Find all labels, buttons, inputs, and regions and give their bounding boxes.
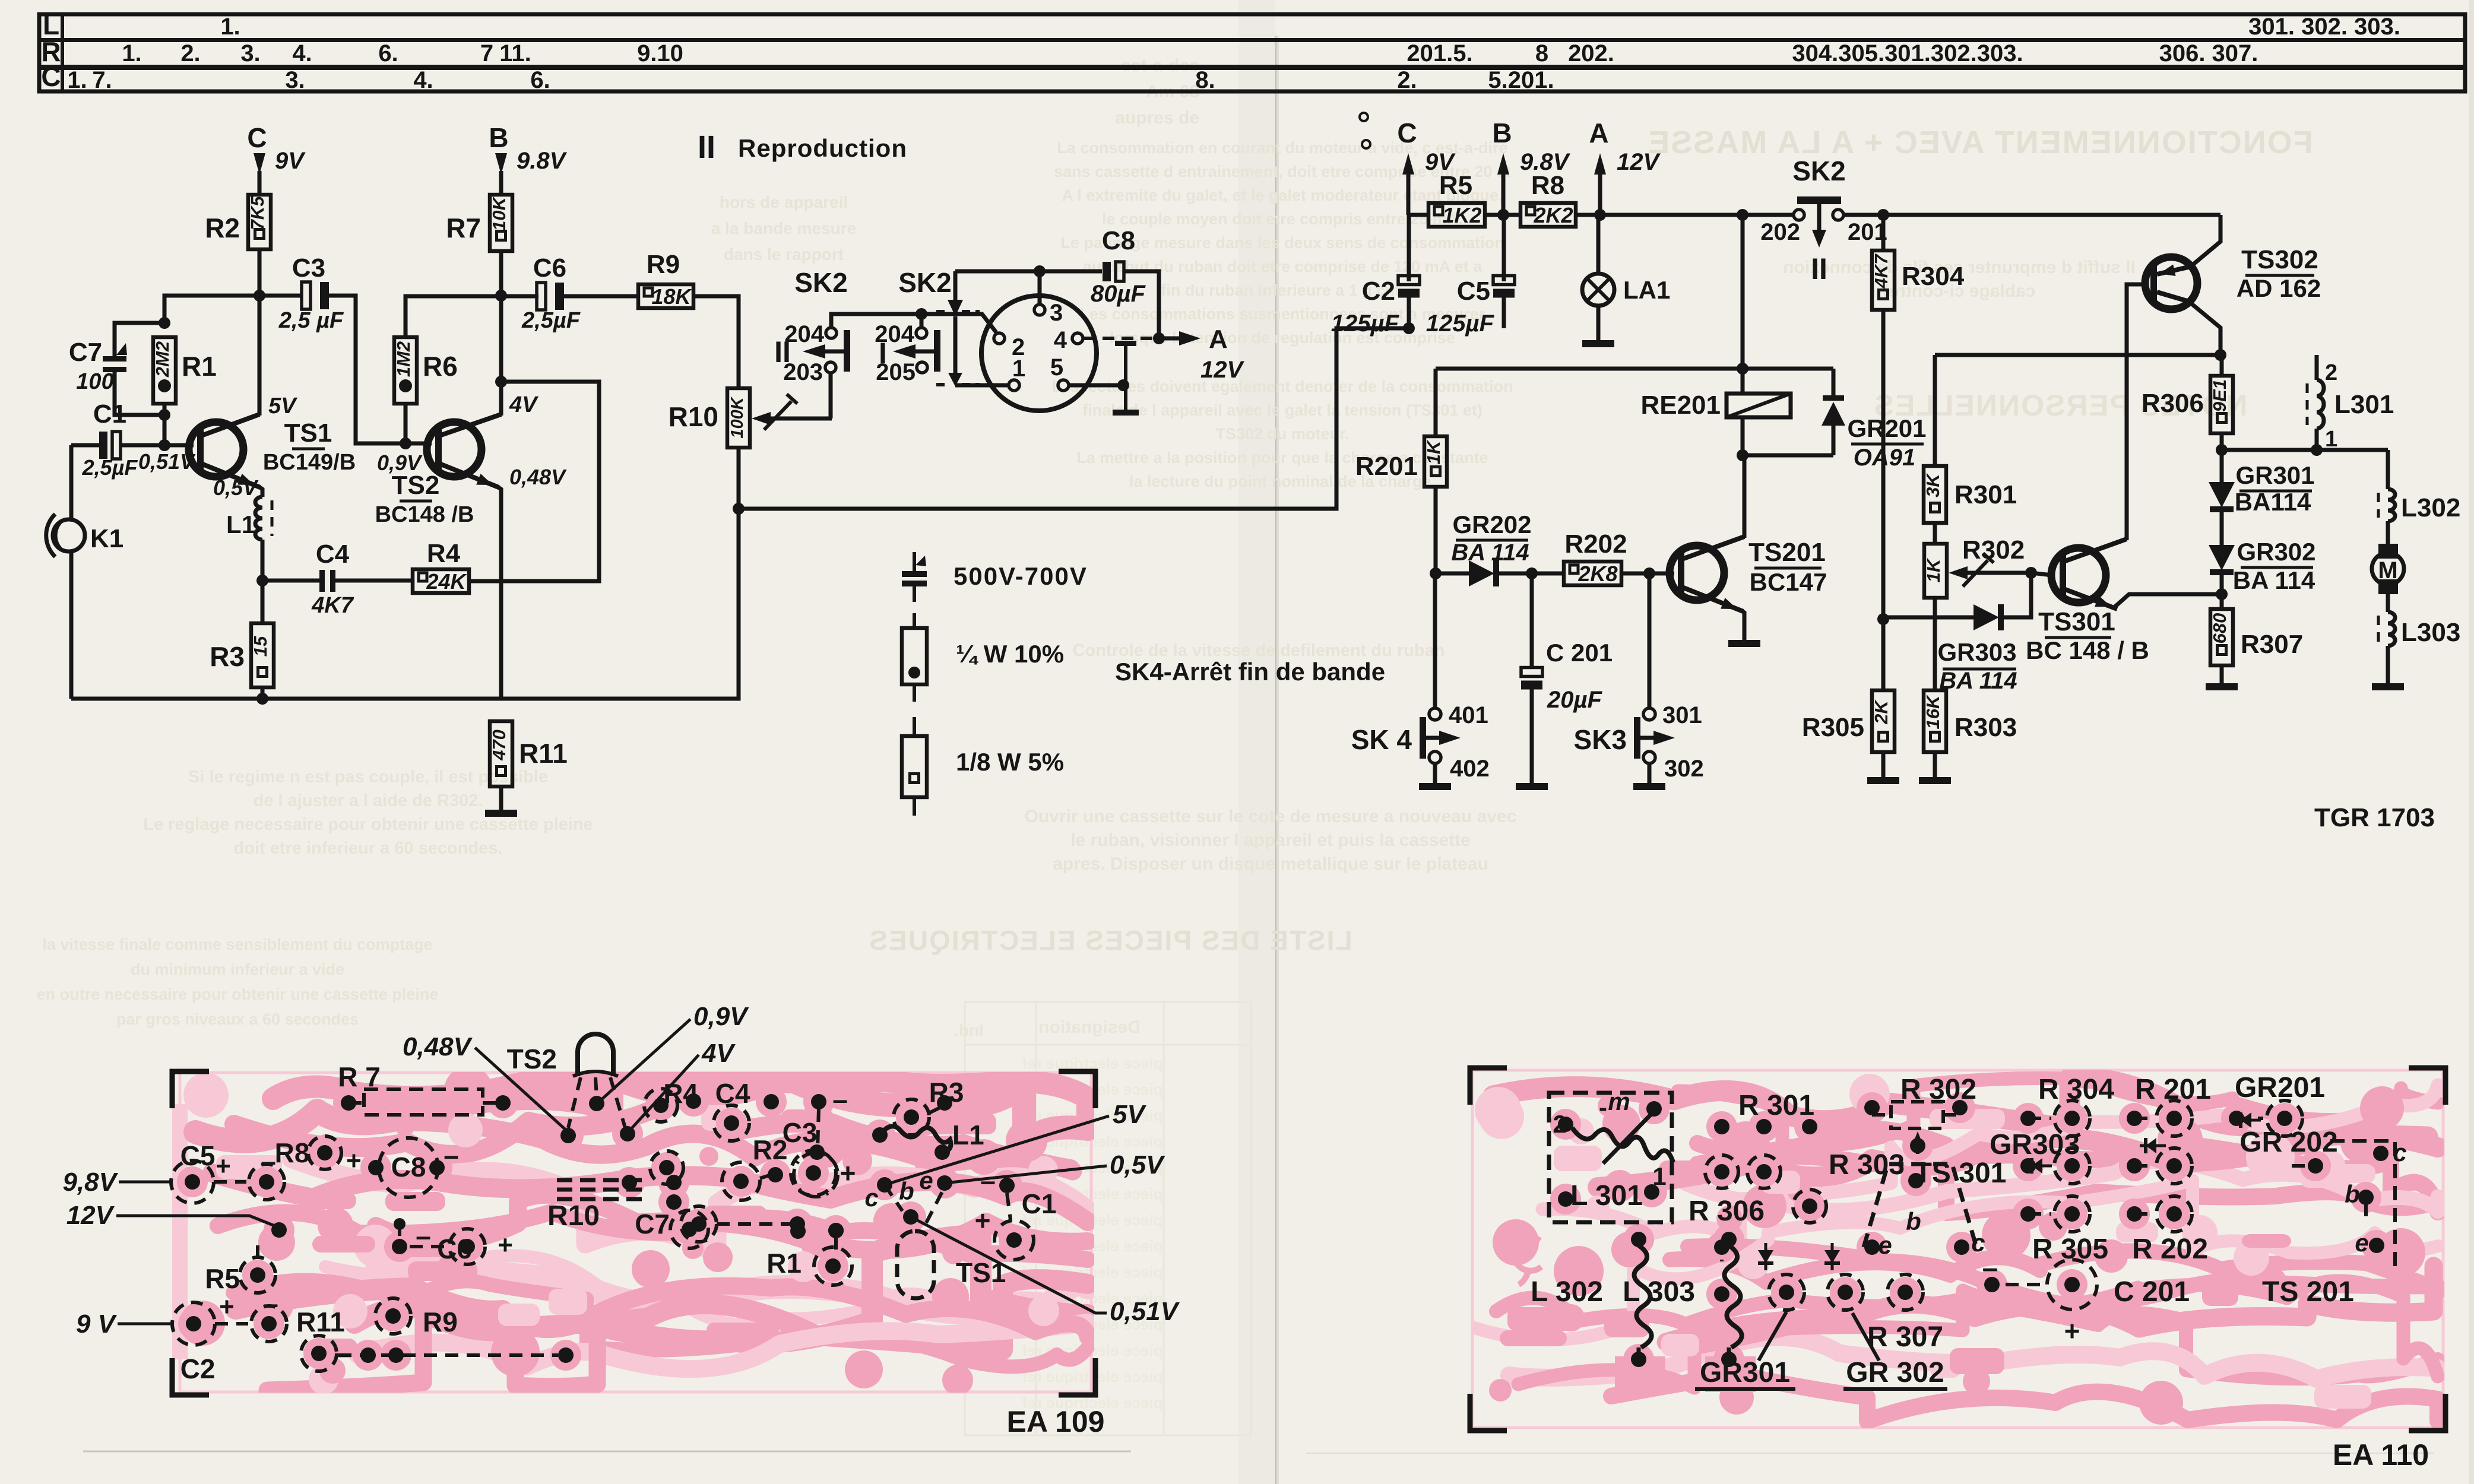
small diode glyphs: [1758, 1250, 1773, 1263]
svg-text:aupres de: aupres de: [1115, 108, 1199, 128]
svg-text:R9: R9: [647, 250, 680, 279]
svg-text:1: 1: [1652, 1162, 1666, 1190]
svg-text:1: 1: [1012, 356, 1025, 382]
svg-text:par gros niveaux a 60 secondes: par gros niveaux a 60 secondes: [116, 1010, 359, 1028]
svg-text:7K5: 7K5: [247, 196, 268, 230]
svg-text:306. 307.: 306. 307.: [2159, 40, 2258, 66]
svg-text:R 301: R 301: [1738, 1090, 1814, 1121]
svg-text:R 306: R 306: [1689, 1196, 1765, 1227]
resistor R7: [490, 195, 512, 251]
svg-text:24K: 24K: [426, 569, 467, 594]
svg-text:TS 201: TS 201: [2262, 1276, 2354, 1308]
svg-text:R201: R201: [1355, 452, 1418, 481]
svg-text:+: +: [216, 1152, 231, 1181]
motor M: [2378, 544, 2398, 559]
svg-text:R7: R7: [446, 213, 481, 243]
svg-text:C3: C3: [783, 1117, 818, 1148]
resistor R303: [1924, 690, 1946, 752]
legend resistor 1/8W: [913, 717, 916, 736]
svg-text:C7: C7: [69, 338, 102, 367]
svg-text:2: 2: [2325, 360, 2337, 385]
svg-text:402: 402: [1450, 756, 1490, 782]
svg-text:dans le rapport: dans le rapport: [724, 245, 844, 264]
svg-text:4: 4: [1054, 327, 1067, 353]
svg-text:L 303: L 303: [1623, 1276, 1695, 1308]
svg-text:9V: 9V: [275, 148, 306, 174]
svg-text:80µF: 80µF: [1091, 281, 1146, 307]
svg-text:C1: C1: [93, 399, 126, 429]
svg-text:LA1: LA1: [1623, 276, 1670, 304]
svg-text:SK2: SK2: [898, 267, 951, 298]
svg-text:201.5.: 201.5.: [1407, 40, 1472, 66]
resistor R304: [1872, 250, 1895, 310]
svg-text:b: b: [899, 1177, 914, 1205]
svg-text:R10: R10: [669, 401, 718, 432]
svg-text:GR301: GR301: [1700, 1357, 1790, 1388]
svg-text:R 7: R 7: [338, 1061, 381, 1092]
legend trimmer capacitor 500V-700V: [913, 552, 916, 571]
svg-text:BA 114: BA 114: [1939, 668, 2017, 694]
svg-text:9.8V: 9.8V: [517, 148, 568, 174]
resistor R307: [2210, 609, 2233, 665]
pink C mark: [1514, 1238, 1541, 1285]
TS302 emitter from bus: [2192, 215, 2220, 265]
svg-text:L303: L303: [2401, 618, 2460, 647]
svg-text:R 307: R 307: [1867, 1321, 1943, 1353]
TS301 dashed outline: [1864, 1164, 1976, 1247]
node TS1 emitter / R3 top: [256, 575, 268, 586]
svg-text:100: 100: [76, 369, 113, 394]
resistor R305: [1872, 690, 1895, 752]
svg-text:m: m: [1608, 1087, 1630, 1115]
resistor R4: [413, 569, 469, 593]
node TS1 base: [159, 439, 170, 451]
svg-text:R1: R1: [182, 351, 217, 382]
svg-text:8: 8: [1535, 40, 1548, 66]
svg-text:du minimum inferieur a vide: du minimum inferieur a vide: [131, 960, 344, 978]
main bus 12V: [1408, 213, 1428, 217]
svg-text:C: C: [1397, 118, 1417, 148]
svg-text:R10: R10: [547, 1200, 600, 1232]
wire R4 feedback to 4V node: [469, 382, 599, 581]
resistor R5: [1428, 203, 1485, 227]
resistor R202: [1532, 572, 1564, 576]
svg-text:C2: C2: [1362, 277, 1395, 306]
L301 dashed box and coil: [1549, 1093, 1672, 1222]
svg-text:TGR 1703: TGR 1703: [2314, 803, 2435, 832]
svg-text:FONCTIONNEMENT AVEC + A LA MAS: FONCTIONNEMENT AVEC + A LA MASSE: [1647, 125, 2313, 160]
svg-text:4.: 4.: [413, 67, 433, 93]
svg-text:1.: 1.: [67, 67, 87, 93]
svg-text:1K2: 1K2: [1442, 203, 1481, 227]
potentiometer R302: [1924, 544, 1947, 598]
svg-text:2.: 2.: [180, 40, 200, 66]
svg-text:301: 301: [1662, 702, 1702, 728]
svg-text:c: c: [864, 1184, 878, 1212]
svg-text:TS 301: TS 301: [1915, 1158, 2007, 1189]
svg-text:de l ajuster a l aide de R302.: de l ajuster a l aide de R302.: [254, 791, 483, 810]
microphone K1: [69, 445, 74, 519]
svg-text:20µF: 20µF: [1547, 687, 1603, 713]
resistor R6: [394, 337, 417, 404]
svg-text:R2: R2: [753, 1134, 788, 1165]
TS201 dashed connections: [2292, 1164, 2315, 1168]
svg-text:BA 114: BA 114: [1451, 540, 1529, 566]
svg-text:1.: 1.: [220, 14, 240, 40]
svg-text:0,48V: 0,48V: [509, 465, 567, 489]
svg-text:la vitesse finale comme sensib: la vitesse finale comme sensiblement du …: [42, 936, 432, 953]
node wire L301 bottom: [2222, 448, 2388, 452]
svg-text:L302: L302: [2401, 493, 2460, 522]
svg-text:2,5 µF: 2,5 µF: [278, 308, 344, 333]
svg-text:15: 15: [250, 636, 271, 657]
svg-text:–: –: [261, 1146, 276, 1177]
svg-text:BA 114: BA 114: [2233, 566, 2315, 594]
svg-text:Ind.: Ind.: [954, 1021, 984, 1039]
svg-text:RE201: RE201: [1640, 391, 1721, 420]
inductor L301: [2315, 355, 2319, 380]
capacitor C2: [1407, 215, 1411, 281]
resistor R1: [153, 337, 176, 404]
svg-text:C8: C8: [391, 1152, 426, 1182]
svg-text:680: 680: [2209, 613, 2230, 644]
svg-text:L1: L1: [952, 1120, 984, 1150]
L302 L303 coils: [1634, 1245, 1651, 1347]
svg-text:SK4-Arrêt fin de bande: SK4-Arrêt fin de bande: [1115, 658, 1385, 686]
wire pin1 to pole: [955, 383, 1009, 388]
svg-text:GR202: GR202: [1452, 510, 1531, 538]
svg-text:TS2: TS2: [392, 471, 440, 500]
potentiometer R10: [727, 388, 750, 448]
diode GR202 BA114: [1436, 572, 1469, 576]
svg-text:7.: 7.: [92, 67, 112, 93]
svg-text:125µF: 125µF: [1426, 310, 1495, 337]
svg-text:6.: 6.: [378, 40, 398, 66]
svg-text:II: II: [1811, 252, 1827, 286]
svg-text:OA91: OA91: [1854, 445, 1916, 471]
svg-text:9 V: 9 V: [76, 1309, 118, 1339]
supply B 9.8V: [1497, 153, 1509, 175]
svg-text:SK3: SK3: [1574, 724, 1627, 755]
TS302 collector: [2190, 302, 2220, 355]
svg-text:C4: C4: [316, 540, 350, 569]
svg-text:R305: R305: [1802, 713, 1864, 742]
svg-text:1M2: 1M2: [393, 341, 414, 377]
svg-text:202.: 202.: [1568, 40, 1614, 66]
svg-text:2K2: 2K2: [1533, 203, 1573, 227]
wire pin3 to C8 line: [1038, 271, 1042, 305]
svg-text:Ouvrir une cassette sur le cot: Ouvrir une cassette sur le cote de mesur…: [1025, 807, 1517, 826]
svg-text:BA114: BA114: [2235, 488, 2311, 516]
svg-text:3K: 3K: [1922, 473, 1943, 497]
svg-text:B: B: [489, 122, 508, 153]
svg-text:R4: R4: [427, 539, 461, 568]
svg-text:SK2: SK2: [794, 267, 847, 298]
svg-text:5: 5: [1050, 354, 1063, 380]
bus to TS302 collector: [1935, 353, 2219, 357]
svg-text:GR303: GR303: [1990, 1129, 2080, 1160]
capacitor C5: [1502, 215, 1506, 281]
transistor TS302 AD162 (PNP): [2145, 257, 2197, 309]
svg-text:c: c: [2393, 1139, 2406, 1166]
svg-text:R11: R11: [519, 738, 568, 769]
svg-text:C: C: [41, 61, 61, 92]
svg-text:Designation: Designation: [1038, 1017, 1141, 1037]
svg-text:SK2: SK2: [1792, 156, 1845, 186]
node TS1 collector top: [254, 290, 265, 302]
svg-text:Les consommations susmentionne: Les consommations susmentionnees sont a …: [1080, 305, 1485, 323]
svg-text:4V: 4V: [509, 392, 538, 417]
svg-text:R11: R11: [296, 1307, 345, 1337]
resistor R11: [490, 721, 512, 787]
svg-text:R2: R2: [205, 213, 240, 243]
EA109 black pads and outlines: [185, 1174, 200, 1190]
inductor L303: [2388, 612, 2395, 646]
svg-text:R3: R3: [210, 641, 245, 672]
svg-text:GR302: GR302: [2237, 538, 2315, 566]
svg-text:R 304: R 304: [2038, 1074, 2114, 1105]
svg-text:16K: 16K: [1922, 694, 1943, 729]
node R1 top: [159, 317, 170, 329]
svg-text:SK 4: SK 4: [1351, 724, 1412, 755]
svg-text:4.: 4.: [292, 40, 312, 66]
svg-text:R 202: R 202: [2132, 1234, 2208, 1265]
svg-text:5V: 5V: [1113, 1100, 1146, 1129]
svg-text:2,5µF: 2,5µF: [82, 455, 138, 480]
svg-text:Le reglage necessaire pour obt: Le reglage necessaire pour obtenir une c…: [143, 815, 593, 834]
svg-text:8.: 8.: [1195, 67, 1215, 93]
svg-text:GR201: GR201: [1847, 414, 1926, 442]
supply C 9V: [254, 153, 265, 175]
wire R10 bottom to rail and right page: [71, 448, 739, 699]
svg-text:3: 3: [1050, 300, 1063, 326]
relay feed wire: [1741, 215, 1745, 394]
svg-text:204: 204: [784, 321, 824, 347]
node TS2 base: [400, 437, 411, 449]
svg-text:5.201.: 5.201.: [1488, 67, 1554, 93]
svg-text:TS302 du moteur.: TS302 du moteur.: [1215, 425, 1349, 443]
svg-text:+: +: [2064, 1315, 2080, 1346]
svg-text:C 201: C 201: [1546, 639, 1613, 667]
svg-text:C8: C8: [1102, 226, 1135, 255]
capacitor C8: [955, 269, 1102, 274]
svg-text:A: A: [1209, 325, 1228, 354]
svg-text:1: 1: [2325, 427, 2337, 452]
svg-text:1K: 1K: [1423, 439, 1444, 464]
transistor TS301 BC148/B: [2051, 548, 2106, 603]
resistor R306: [2220, 355, 2224, 376]
svg-text:b: b: [1906, 1207, 1921, 1235]
svg-text:500V-700V: 500V-700V: [954, 562, 1088, 590]
chassis T ground: [1115, 341, 1136, 346]
svg-text:301. 302. 303.: 301. 302. 303.: [2248, 14, 2400, 40]
DIN connector: [981, 296, 1097, 411]
svg-text:R1: R1: [766, 1248, 802, 1279]
svg-text:4K7: 4K7: [1871, 253, 1892, 289]
svg-text:–: –: [263, 1288, 278, 1319]
svg-text:¼ W 10%: ¼ W 10%: [956, 640, 1064, 668]
ground below R11: [485, 810, 517, 817]
transistor TS2 BC148/B: [427, 422, 482, 477]
svg-text:4K7: 4K7: [311, 593, 354, 618]
svg-text:C: C: [247, 122, 267, 153]
SK2 pole line with arrows: [954, 271, 958, 300]
svg-text:205: 205: [876, 359, 916, 385]
svg-text:A: A: [1589, 118, 1608, 148]
svg-text:18K: 18K: [651, 284, 692, 309]
svg-text:doit etre inferieur a 60 secon: doit etre inferieur a 60 secondes.: [234, 839, 503, 858]
legend resistor 1/4W: [913, 613, 916, 628]
svg-text:1.: 1.: [122, 40, 141, 66]
wire pin5: [1069, 383, 1123, 388]
svg-text:TS2: TS2: [507, 1044, 557, 1074]
switch SK4 (401/402): [1433, 573, 1437, 709]
svg-text:4V: 4V: [701, 1039, 736, 1068]
svg-text:R8: R8: [275, 1137, 310, 1168]
svg-text:R6: R6: [423, 351, 458, 382]
wire C1 to base: [121, 443, 194, 448]
inductor L1: [255, 497, 262, 540]
wire C3 to TS2 base: [329, 296, 432, 443]
svg-text:L1: L1: [226, 510, 255, 538]
svg-text:BC148 /B: BC148 /B: [375, 502, 474, 527]
capacitor C4: [262, 579, 319, 583]
svg-text:304.305.301.302.303.: 304.305.301.302.303.: [1792, 40, 2023, 66]
wire collector node horizontal: [164, 296, 302, 323]
svg-text:C1: C1: [1022, 1188, 1057, 1219]
svg-text:R304: R304: [1902, 262, 1965, 291]
svg-text:+: +: [840, 1158, 856, 1188]
svg-text:hors de appareil: hors de appareil: [720, 193, 848, 211]
svg-text:–: –: [832, 1084, 848, 1115]
svg-text:e: e: [1878, 1231, 1892, 1259]
TS1 outline: [897, 1231, 934, 1298]
lamp LA1: [1596, 215, 1601, 274]
svg-text:GR201: GR201: [2235, 1072, 2325, 1104]
svg-text:3.: 3.: [285, 67, 305, 93]
svg-text:L 301: L 301: [1570, 1180, 1643, 1212]
svg-text:0,9V: 0,9V: [693, 1002, 749, 1031]
svg-text:+: +: [975, 1205, 991, 1236]
svg-text:3.: 3.: [240, 40, 260, 66]
svg-text:B: B: [1492, 118, 1512, 148]
resistor R3: [251, 623, 274, 687]
svg-text:EA 110: EA 110: [2333, 1438, 2429, 1472]
component R7 dashed outline: [364, 1089, 483, 1115]
svg-text:9E1: 9E1: [2209, 379, 2230, 412]
svg-text:12V: 12V: [66, 1201, 115, 1230]
svg-text:R202: R202: [1564, 529, 1627, 559]
svg-text:R4: R4: [663, 1078, 698, 1109]
svg-text:10K: 10K: [489, 195, 509, 230]
transistor TS201 BC147: [1670, 546, 1724, 600]
svg-text:apres. Disposer un disque meta: apres. Disposer un disque metallique sur…: [1053, 854, 1488, 874]
svg-text:6.: 6.: [530, 67, 550, 93]
svg-text:5V: 5V: [268, 394, 297, 418]
svg-text:L301: L301: [2334, 390, 2394, 419]
relay RE201: [1727, 394, 1791, 417]
output arrow A 12V: [1159, 337, 1181, 341]
svg-text:1K: 1K: [1923, 557, 1944, 582]
supply B 9.8V: [495, 153, 507, 175]
svg-text:e: e: [2355, 1229, 2368, 1257]
svg-text:b: b: [2345, 1180, 2360, 1208]
resistor R8: [1520, 203, 1576, 227]
capacitor C1: [99, 432, 107, 459]
svg-text:C3: C3: [292, 253, 325, 283]
svg-text:0,5V: 0,5V: [213, 475, 259, 500]
svg-text:TS1: TS1: [284, 418, 332, 448]
svg-text:GR 302: GR 302: [1846, 1357, 1944, 1388]
svg-text:C2: C2: [180, 1353, 216, 1384]
svg-text:–: –: [980, 1165, 996, 1196]
svg-text:204: 204: [875, 321, 914, 347]
svg-text:R307: R307: [2241, 630, 2303, 659]
svg-text:BC149/B: BC149/B: [263, 450, 356, 475]
supply A 12V: [1594, 153, 1606, 175]
svg-text:R5: R5: [205, 1263, 240, 1294]
svg-text:TS201: TS201: [1748, 538, 1826, 567]
svg-text:R5: R5: [1439, 171, 1472, 200]
long wire to motor circuit: [739, 328, 1409, 509]
EA110 black pads: [1558, 1117, 1573, 1132]
wire K1 down to rail: [69, 551, 74, 699]
svg-text:R 305: R 305: [2032, 1234, 2108, 1265]
svg-text:LISTE DES PIECES ELECTRIQUES: LISTE DES PIECES ELECTRIQUES: [868, 925, 1352, 956]
svg-text:202: 202: [1760, 219, 1800, 245]
svg-text:11.: 11.: [499, 40, 531, 66]
wire R2 to node: [258, 249, 262, 296]
diode GR302 BA114: [2209, 545, 2235, 570]
PCB EA109 corner brackets: [172, 1071, 209, 1108]
svg-text:9.10: 9.10: [637, 40, 683, 66]
svg-text:2,5µF: 2,5µF: [521, 308, 581, 333]
svg-text:TS301: TS301: [2038, 607, 2115, 636]
svg-text:100K: 100K: [728, 396, 747, 438]
svg-text:C4: C4: [715, 1078, 750, 1109]
capacitor C201: [1530, 573, 1534, 669]
svg-text:R303: R303: [1955, 713, 2017, 742]
svg-text:R306: R306: [2142, 389, 2204, 418]
diode GR201 OA91: [1832, 369, 1836, 397]
supply C 9V: [1402, 153, 1414, 175]
TS2 transistor outline: [578, 1034, 613, 1076]
svg-text:Si le regime n est pas couple,: Si le regime n est pas couple, il est po…: [188, 768, 548, 787]
svg-text:EA 109: EA 109: [1007, 1405, 1105, 1438]
diode GR303 BA114: [1883, 616, 1974, 620]
pin4 dashed wire: [1084, 337, 1154, 340]
svg-text:1/8 W 5%: 1/8 W 5%: [956, 748, 1064, 776]
inductor L302: [2386, 450, 2390, 489]
L1 coil: [880, 1126, 951, 1152]
svg-text:2M2: 2M2: [152, 341, 173, 378]
svg-text:R9: R9: [423, 1307, 458, 1337]
diode GR301 BA114: [2220, 450, 2224, 482]
svg-text:K1: K1: [90, 524, 123, 553]
top reference table: [39, 14, 2465, 91]
capacitor C7 (trimmer): [115, 323, 164, 357]
svg-text:R8: R8: [1531, 171, 1564, 200]
svg-text:en outre necessaire pour obten: en outre necessaire pour obtenir une cas…: [37, 985, 439, 1003]
svg-text:+: +: [498, 1231, 513, 1260]
svg-text:AD 162: AD 162: [2237, 274, 2321, 302]
node TS2 collector top: [495, 290, 507, 302]
svg-text:+: +: [219, 1292, 235, 1321]
svg-text:C6: C6: [533, 253, 566, 283]
node R1 bottom: [159, 409, 170, 421]
svg-text:0,51V: 0,51V: [1110, 1297, 1180, 1326]
R306 pads: [1720, 1247, 1724, 1261]
